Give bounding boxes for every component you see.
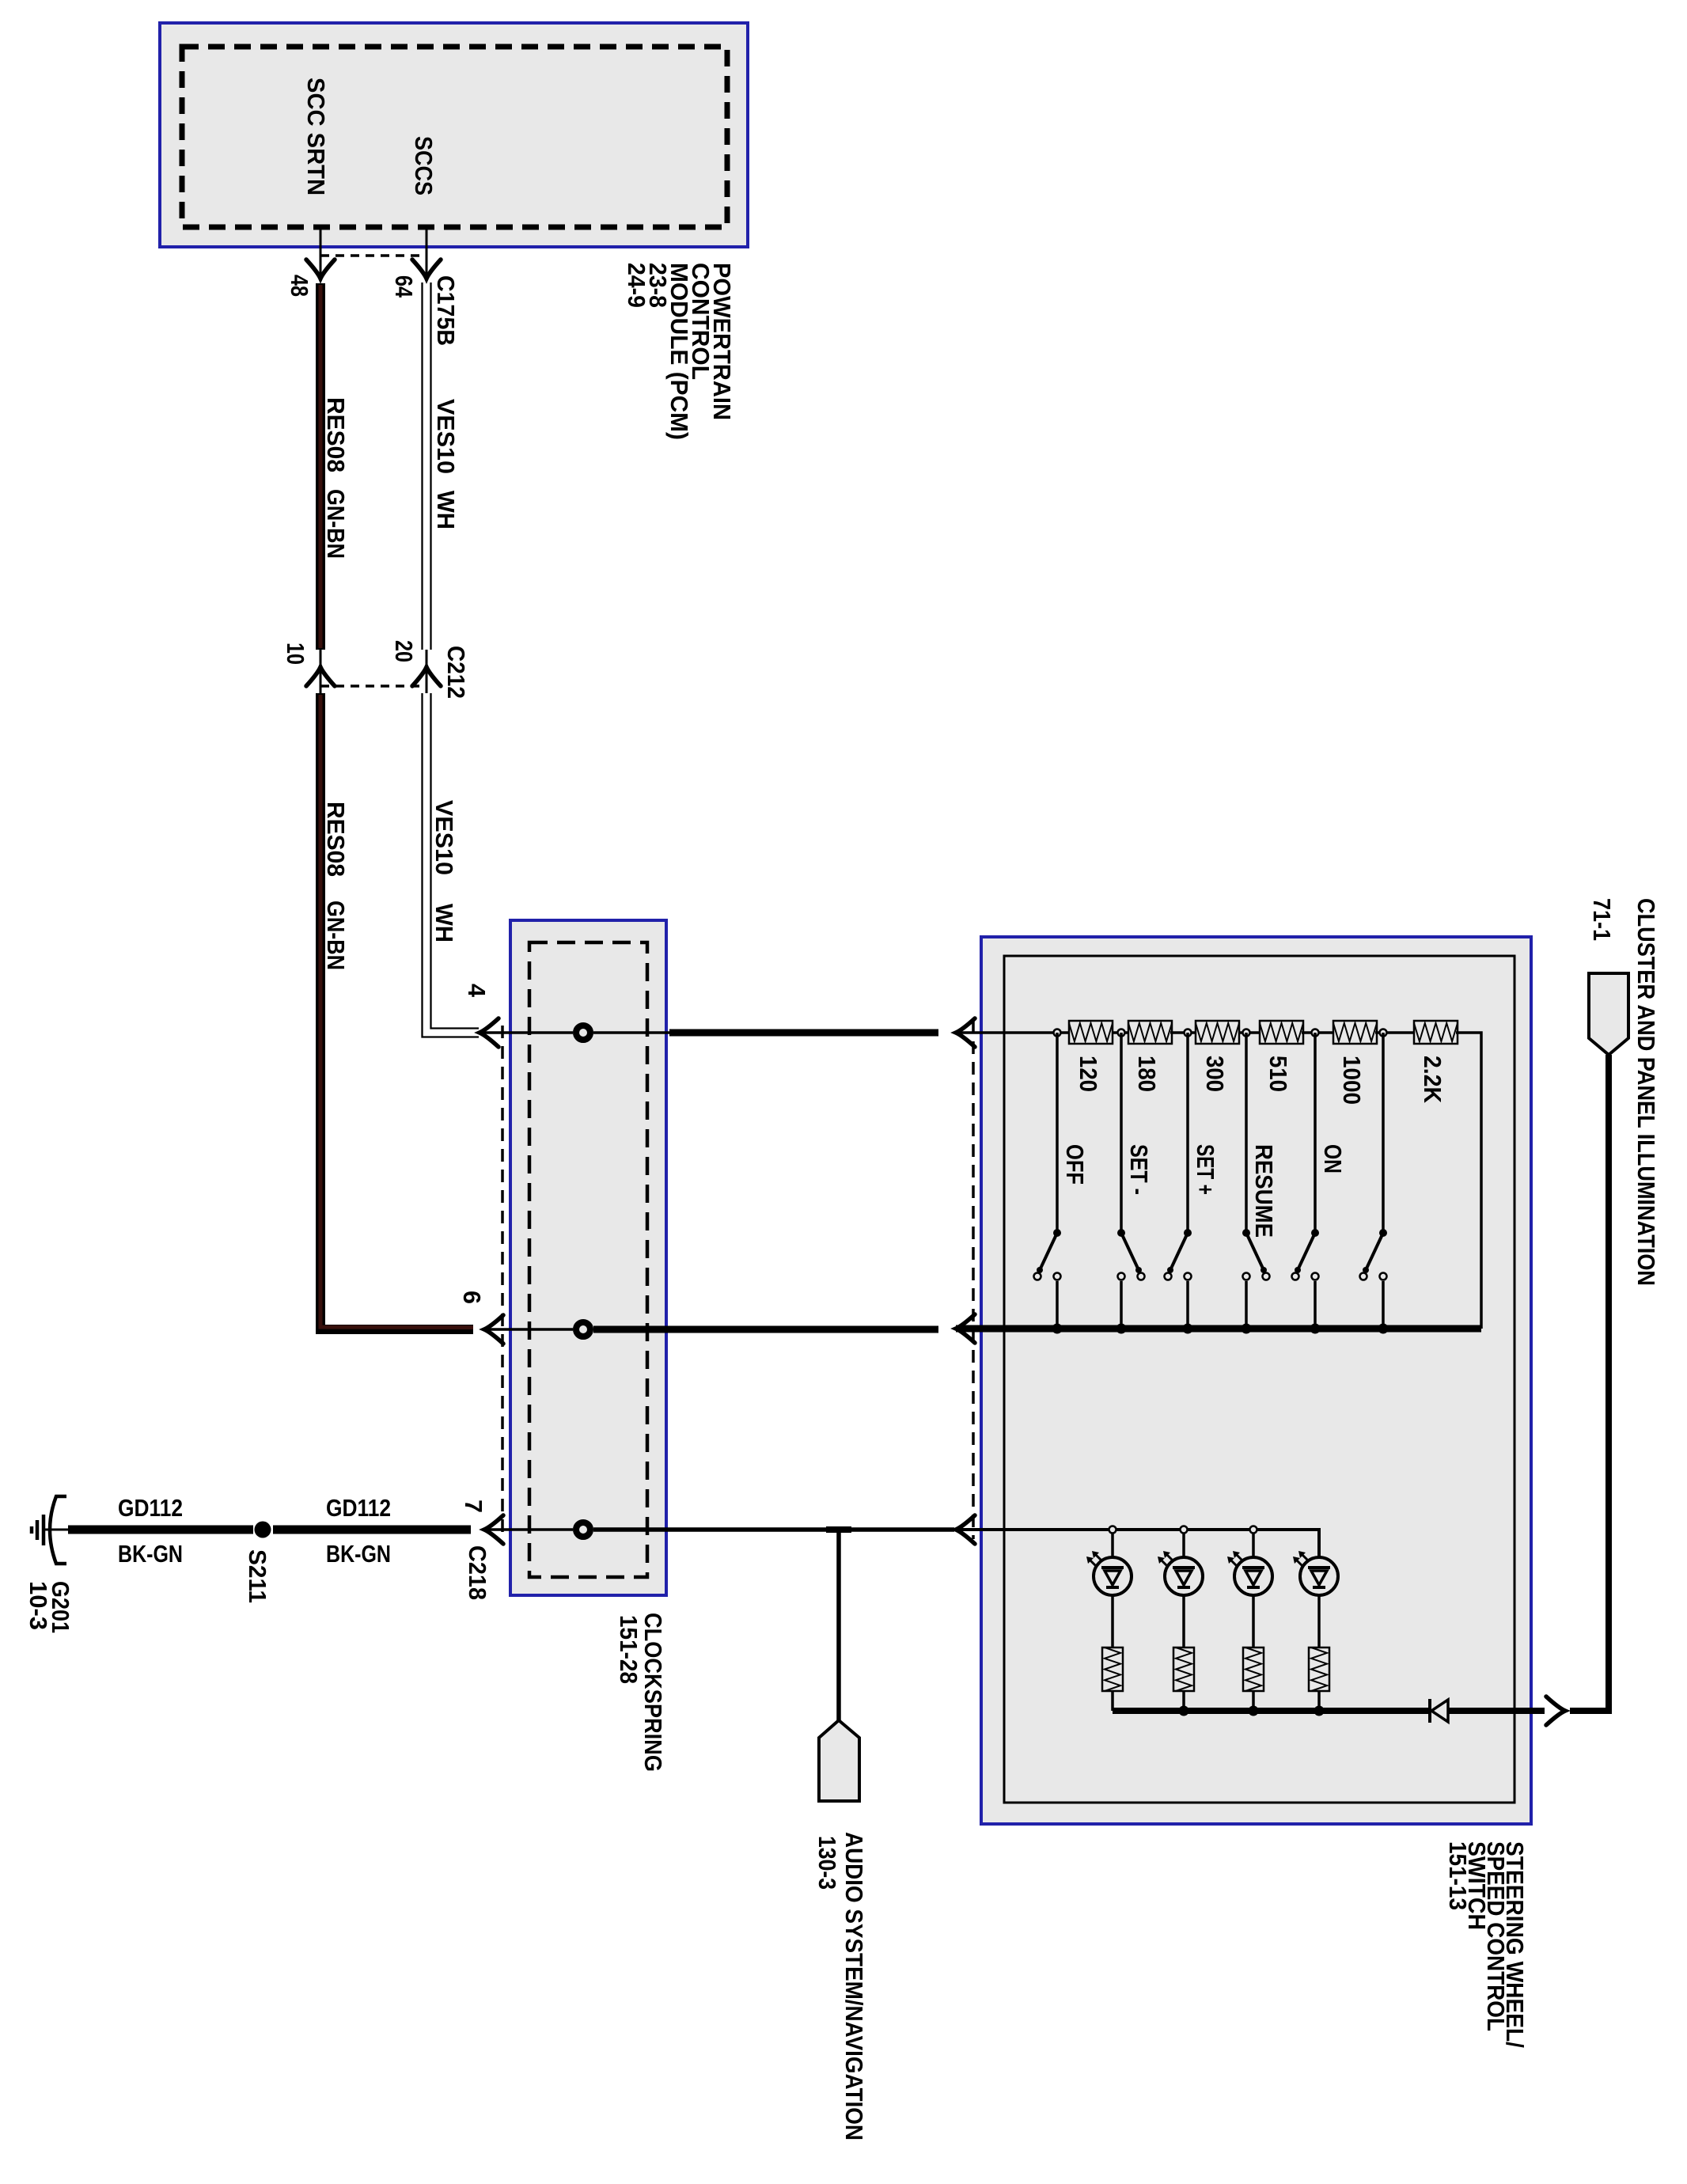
switch SET - xyxy=(1120,1033,1123,1231)
clockspring harness dashed line C218 xyxy=(501,1026,504,1535)
node resistor tap 2 xyxy=(1118,1029,1125,1037)
svg-text:6: 6 xyxy=(458,1291,486,1304)
junction bus dot 6 xyxy=(1378,1324,1389,1334)
wire resistor4 to bus xyxy=(1317,1691,1321,1711)
svg-text:SCC SRTN: SCC SRTN xyxy=(302,78,330,195)
svg-text:SET -: SET - xyxy=(1125,1144,1153,1195)
resistor R 300 xyxy=(1196,1021,1239,1044)
svg-text:WH: WH xyxy=(432,491,460,529)
resistor R 180 xyxy=(1128,1021,1172,1044)
svg-text:BK-GN: BK-GN xyxy=(118,1540,183,1568)
svg-text:GD112: GD112 xyxy=(326,1494,391,1522)
wire LED1 to resistor xyxy=(1111,1595,1114,1647)
svg-text:130-3: 130-3 xyxy=(813,1836,841,1890)
clockspring coil ring pin 4 xyxy=(576,1026,590,1040)
junction bus dot 2 xyxy=(1116,1324,1127,1334)
wire clockspring pin6 to switch (thick) xyxy=(593,1326,938,1333)
svg-text:C212: C212 xyxy=(442,646,470,699)
wire LED common bus xyxy=(1113,1708,1430,1714)
wire to cluster pentagon xyxy=(1570,1055,1609,1711)
wire LED drop 1 xyxy=(1111,1534,1114,1557)
connector C212 dashed line xyxy=(320,684,426,688)
svg-text:RESUME: RESUME xyxy=(1250,1144,1278,1238)
wire LED2 to resistor xyxy=(1182,1595,1185,1647)
connector arrow C212 pin 10 xyxy=(306,667,335,686)
resistor LED 2 xyxy=(1173,1647,1194,1691)
LED 3 xyxy=(1234,1557,1272,1595)
wire VES10 WH upper segment (double line) xyxy=(421,282,423,650)
LED 2 xyxy=(1165,1557,1203,1595)
wire stub above C212 pin 10 xyxy=(320,650,322,693)
wire stub above C212 pin 20 xyxy=(426,650,428,693)
wire LED drop 2 xyxy=(1182,1534,1185,1557)
wire clockspring pin4 to switch (thick) xyxy=(669,1029,938,1037)
connector arrow cluster illumination xyxy=(1546,1697,1565,1725)
module box PCM (Powertrain Control Module) xyxy=(160,23,748,247)
resistor LED 4 xyxy=(1309,1647,1329,1691)
clockspring coil ring pin 7 xyxy=(576,1522,590,1537)
connector arrow C212 pin 20 xyxy=(412,667,441,686)
junction LED bus dot 2 xyxy=(1249,1706,1259,1716)
connector arrow clockspring pin 6 xyxy=(484,1315,503,1344)
node resistor tap 4 xyxy=(1243,1029,1250,1037)
clockspring inner dashed border xyxy=(529,942,647,1577)
connector arrow clockspring pin 4 xyxy=(480,1018,499,1047)
switch RESUME xyxy=(1245,1033,1248,1231)
svg-text:64: 64 xyxy=(390,275,418,298)
svg-text:180: 180 xyxy=(1133,1056,1161,1092)
svg-text:C175B: C175B xyxy=(432,275,460,346)
connector arrow switch pin (row 3) xyxy=(956,1515,975,1544)
resistor LED 3 xyxy=(1243,1647,1264,1691)
svg-text:20: 20 xyxy=(390,640,418,662)
node LED tap 1 xyxy=(1109,1526,1116,1534)
svg-text:GN-BN: GN-BN xyxy=(322,901,350,970)
svg-text:VES10: VES10 xyxy=(432,399,460,474)
svg-text:GN-BN: GN-BN xyxy=(322,489,350,559)
ground symbol G201 xyxy=(44,1529,70,1531)
wire into clockspring pin 6 xyxy=(483,1328,573,1331)
svg-text:SET +: SET + xyxy=(1192,1144,1219,1195)
switch 2.2K branch xyxy=(1382,1033,1385,1231)
wire resistor chain segments xyxy=(956,1031,1069,1034)
switch harness dashed line xyxy=(972,1021,975,1539)
PCM inner dashed border xyxy=(182,47,727,227)
resistor R 2.2K xyxy=(1414,1021,1458,1044)
junction LED bus dot 1 xyxy=(1179,1706,1189,1716)
svg-text:C218: C218 xyxy=(464,1545,491,1600)
clockspring coil ring pin 6 xyxy=(576,1322,590,1337)
wire PCM pin 48 stub xyxy=(320,227,322,279)
svg-text:OFF: OFF xyxy=(1061,1144,1089,1185)
offpage connector CLUSTER AND PANEL ILLUMINATION (pentagon) xyxy=(1589,973,1628,1055)
wire RES08 GN-BN lower segment xyxy=(320,693,473,1329)
svg-text:151-13: 151-13 xyxy=(1444,1841,1472,1910)
node LED tap 3 xyxy=(1250,1526,1257,1534)
wire LED feed row xyxy=(956,1530,1319,1557)
connector arrow pin 64 xyxy=(412,260,441,279)
switch ON xyxy=(1314,1033,1317,1231)
connector arrow switch pin (row 2) xyxy=(956,1314,975,1343)
LED 4 xyxy=(1300,1557,1338,1595)
connector arrow switch pin (row 1) xyxy=(956,1018,975,1047)
switch OFF xyxy=(1056,1033,1059,1231)
junction LED bus dot 3 xyxy=(1314,1706,1325,1716)
wire LED drop 3 xyxy=(1252,1534,1255,1557)
wire VES10 WH lower segment (double line elbow) xyxy=(423,693,480,1037)
svg-text:7: 7 xyxy=(460,1500,487,1513)
wire PCM pin 64 stub xyxy=(426,227,428,279)
module box STEERING WHEEL/SPEED CONTROL SWITCH xyxy=(981,937,1531,1824)
svg-text:ON: ON xyxy=(1319,1144,1347,1174)
svg-text:71-1: 71-1 xyxy=(1588,898,1616,941)
switch inner solid border xyxy=(1004,956,1515,1803)
wire LED4 to resistor xyxy=(1317,1595,1321,1647)
junction bus dot 5 xyxy=(1310,1324,1321,1334)
svg-text:48: 48 xyxy=(286,275,313,297)
svg-text:VES10: VES10 xyxy=(430,800,458,875)
wire resistor3 to bus xyxy=(1252,1691,1255,1711)
connector arrow pin 48 xyxy=(306,260,335,279)
node resistor tap 3 xyxy=(1185,1029,1192,1037)
offpage connector AUDIO SYSTEM/NAVIGATION (pentagon) xyxy=(819,1720,859,1801)
svg-text:RES08: RES08 xyxy=(322,397,350,472)
switch SET + xyxy=(1186,1033,1189,1231)
svg-text:2.2K: 2.2K xyxy=(1419,1056,1446,1104)
wire GD112 BK-GN (clockspring side) xyxy=(273,1526,471,1534)
svg-text:24-9: 24-9 xyxy=(623,263,650,308)
resistor R 1000 xyxy=(1333,1021,1377,1044)
svg-text:S211: S211 xyxy=(244,1549,271,1603)
svg-text:SCCS: SCCS xyxy=(410,136,438,195)
svg-text:151-28: 151-28 xyxy=(615,1615,643,1684)
svg-text:CLUSTER AND PANEL ILLUMINATION: CLUSTER AND PANEL ILLUMINATION xyxy=(1632,898,1660,1286)
svg-text:WH: WH xyxy=(430,904,458,942)
node LED tap 2 xyxy=(1181,1526,1188,1534)
resistor LED 1 xyxy=(1102,1647,1123,1691)
wire clockspring pin4 to switch (thin) xyxy=(593,1031,669,1034)
wire into clockspring pin 7 xyxy=(484,1528,573,1531)
wire RES08 GN-BN upper segment xyxy=(316,283,325,650)
svg-text:10: 10 xyxy=(282,643,309,665)
svg-text:AUDIO SYSTEM/NAVIGATION: AUDIO SYSTEM/NAVIGATION xyxy=(840,1832,868,2140)
svg-text:GD112: GD112 xyxy=(118,1494,183,1522)
wire LED3 to resistor xyxy=(1252,1595,1255,1647)
junction bus dot 1 xyxy=(1052,1324,1063,1334)
svg-text:10-3: 10-3 xyxy=(25,1581,52,1630)
node resistor tap 6 xyxy=(1380,1029,1387,1037)
svg-text:510: 510 xyxy=(1264,1056,1292,1092)
svg-text:1000: 1000 xyxy=(1338,1056,1366,1105)
wire clockspring pin7 to switch xyxy=(593,1527,954,1532)
connector arrow clockspring pin 7 xyxy=(484,1515,503,1544)
splice S211 xyxy=(255,1522,271,1538)
resistor R 510 xyxy=(1260,1021,1303,1044)
module box CLOCKSPRING xyxy=(510,920,666,1595)
svg-text:RES08: RES08 xyxy=(322,802,350,877)
audio system tap junction xyxy=(826,1526,851,1533)
wire switch common bus xyxy=(956,1325,1481,1333)
wire diode to connector xyxy=(1448,1708,1545,1714)
junction bus dot 3 xyxy=(1183,1324,1193,1334)
wire resistor1 to bus xyxy=(1111,1691,1114,1711)
node resistor tap 1 xyxy=(1054,1029,1061,1037)
wire GD112 BK-GN (ground side) xyxy=(68,1526,253,1534)
junction bus dot 4 xyxy=(1242,1324,1252,1334)
svg-text:CLOCKSPRING: CLOCKSPRING xyxy=(639,1613,667,1772)
LED 1 xyxy=(1094,1557,1132,1595)
connector C175B dashed jumper xyxy=(320,254,426,257)
svg-text:300: 300 xyxy=(1201,1056,1229,1092)
diode D1 xyxy=(1428,1699,1431,1723)
svg-text:BK-GN: BK-GN xyxy=(326,1540,391,1568)
svg-text:120: 120 xyxy=(1075,1056,1102,1092)
resistor R 120 xyxy=(1069,1021,1113,1044)
wire into clockspring pin 4 xyxy=(479,1031,573,1034)
node resistor tap 5 xyxy=(1312,1029,1319,1037)
wire resistor2 to bus xyxy=(1182,1691,1185,1711)
svg-text:4: 4 xyxy=(463,984,491,998)
